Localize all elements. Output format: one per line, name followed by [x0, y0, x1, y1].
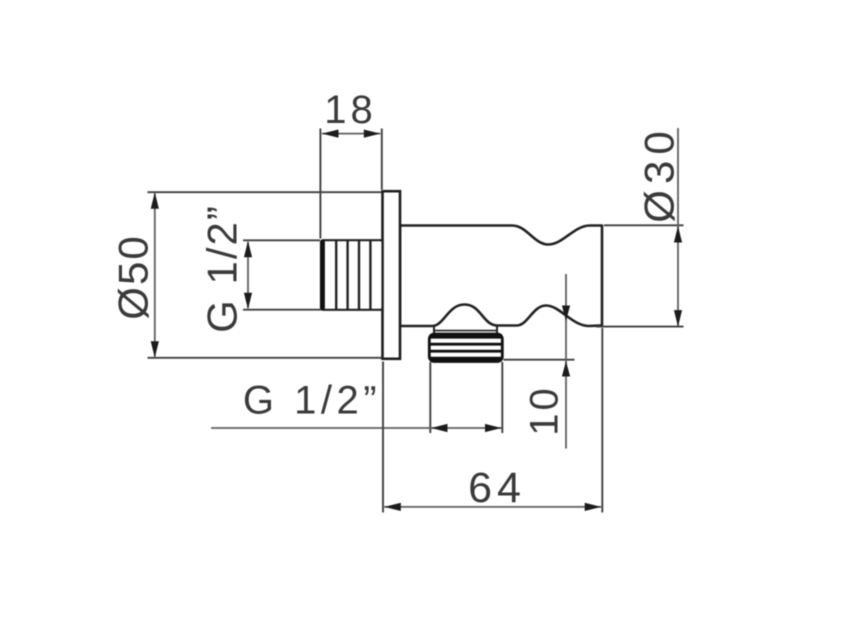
dimension 64 (bottom)	[383, 328, 602, 513]
svg-text:G 1/2”: G 1/2”	[199, 204, 246, 333]
wall inlet thread G1/2 (hatched)	[321, 240, 383, 310]
svg-text:G 1/2”: G 1/2”	[243, 379, 381, 423]
dimension 18	[320, 88, 381, 239]
dimension 10 (bottom outlet protrusion)	[504, 274, 575, 449]
svg-text:Ø30: Ø30	[636, 125, 683, 222]
dimension D30 (right)	[596, 125, 684, 326]
wall plate (flange)	[383, 191, 401, 359]
bottom outlet thread G1/2 (striped)	[429, 334, 502, 362]
label G 1/2" (upper, rotated) with thread dimension	[199, 204, 322, 333]
svg-text:Ø50: Ø50	[110, 234, 157, 319]
label G 1/2" (bottom) with outlet thread dimension	[211, 362, 502, 433]
body: shower holder cylinder outline	[400, 226, 602, 327]
svg-text:64: 64	[468, 464, 526, 512]
svg-text:10: 10	[523, 385, 567, 436]
dimension D50 (left)	[110, 192, 382, 358]
svg-text:18: 18	[324, 88, 377, 132]
bottom outlet collar	[433, 327, 498, 335]
